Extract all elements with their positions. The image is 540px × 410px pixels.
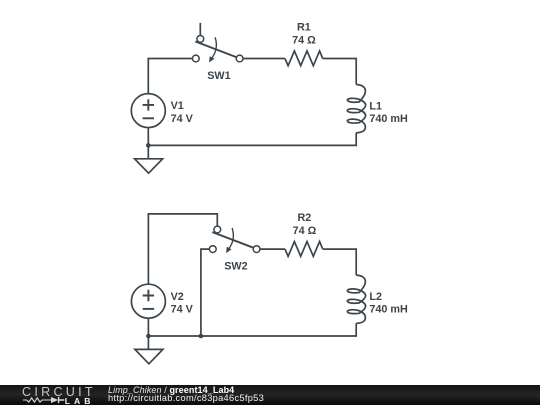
- switch SW1 top stub wire: [199, 23, 201, 36]
- wire L2 to bottom rail: [148, 323, 356, 336]
- wire V2 bottom to ground: [147, 318, 149, 349]
- switch SW1 top throw terminal: [197, 36, 204, 43]
- svg-text:74 V: 74 V: [171, 304, 194, 316]
- switch SW1 left throw terminal: [192, 55, 199, 62]
- ground circuit 2: [135, 349, 163, 363]
- inductor L2: [347, 275, 365, 323]
- ground circuit 1: [135, 159, 163, 173]
- wire R1 to top-right corner down to L1: [323, 59, 357, 85]
- svg-text:74 Ω: 74 Ω: [292, 34, 316, 46]
- junction node SW2 throw rail: [199, 334, 204, 339]
- voltage source V2: [131, 284, 165, 318]
- switch SW2 actuation arrow: [229, 228, 234, 249]
- svg-text:740 mH: 740 mH: [369, 304, 408, 316]
- switch SW2 left throw terminal: [209, 246, 216, 253]
- switch SW1 common terminal: [236, 55, 243, 62]
- wire SW1 common to R1: [243, 58, 285, 60]
- svg-text:740 mH: 740 mH: [369, 113, 408, 125]
- wire R2 to corner down to L2: [323, 249, 357, 275]
- junction node circuit 1: [146, 143, 151, 148]
- svg-text:L1: L1: [369, 100, 382, 112]
- wire SW2 common to R2: [260, 248, 285, 250]
- wire V1 top to switch level: [148, 59, 192, 94]
- inductor L1: [347, 85, 365, 133]
- switch SW2 common terminal: [253, 246, 260, 253]
- switch SW1 actuation arrow: [212, 37, 217, 58]
- wire L1 to bottom rail: [148, 133, 356, 146]
- svg-text:74 Ω: 74 Ω: [293, 225, 317, 237]
- svg-text:V1: V1: [171, 100, 184, 112]
- svg-text:74 V: 74 V: [171, 113, 194, 125]
- switch SW2 blade: [212, 232, 254, 248]
- voltage source V1: [131, 94, 165, 128]
- svg-text:L2: L2: [369, 291, 382, 303]
- logo diode: [51, 397, 58, 403]
- resistor R1: [285, 51, 323, 66]
- svg-text:V2: V2: [171, 291, 184, 303]
- switch SW1 blade: [195, 42, 237, 58]
- junction node V2 rail: [146, 334, 151, 339]
- svg-text:SW2: SW2: [224, 261, 247, 273]
- wire V2 top over to SW2 top throw: [148, 214, 217, 284]
- CircuitLab logo: [22, 385, 94, 405]
- wire SW2 left throw down to rail: [201, 249, 210, 336]
- svg-text:SW1: SW1: [207, 70, 230, 82]
- resistor R2: [285, 242, 323, 257]
- logo wire + resistor zigzag: [23, 398, 51, 402]
- svg-text:R1: R1: [297, 22, 311, 34]
- svg-text:R2: R2: [297, 212, 311, 224]
- wire V1 bottom to ground: [147, 128, 149, 159]
- switch SW2 top throw terminal: [214, 226, 221, 233]
